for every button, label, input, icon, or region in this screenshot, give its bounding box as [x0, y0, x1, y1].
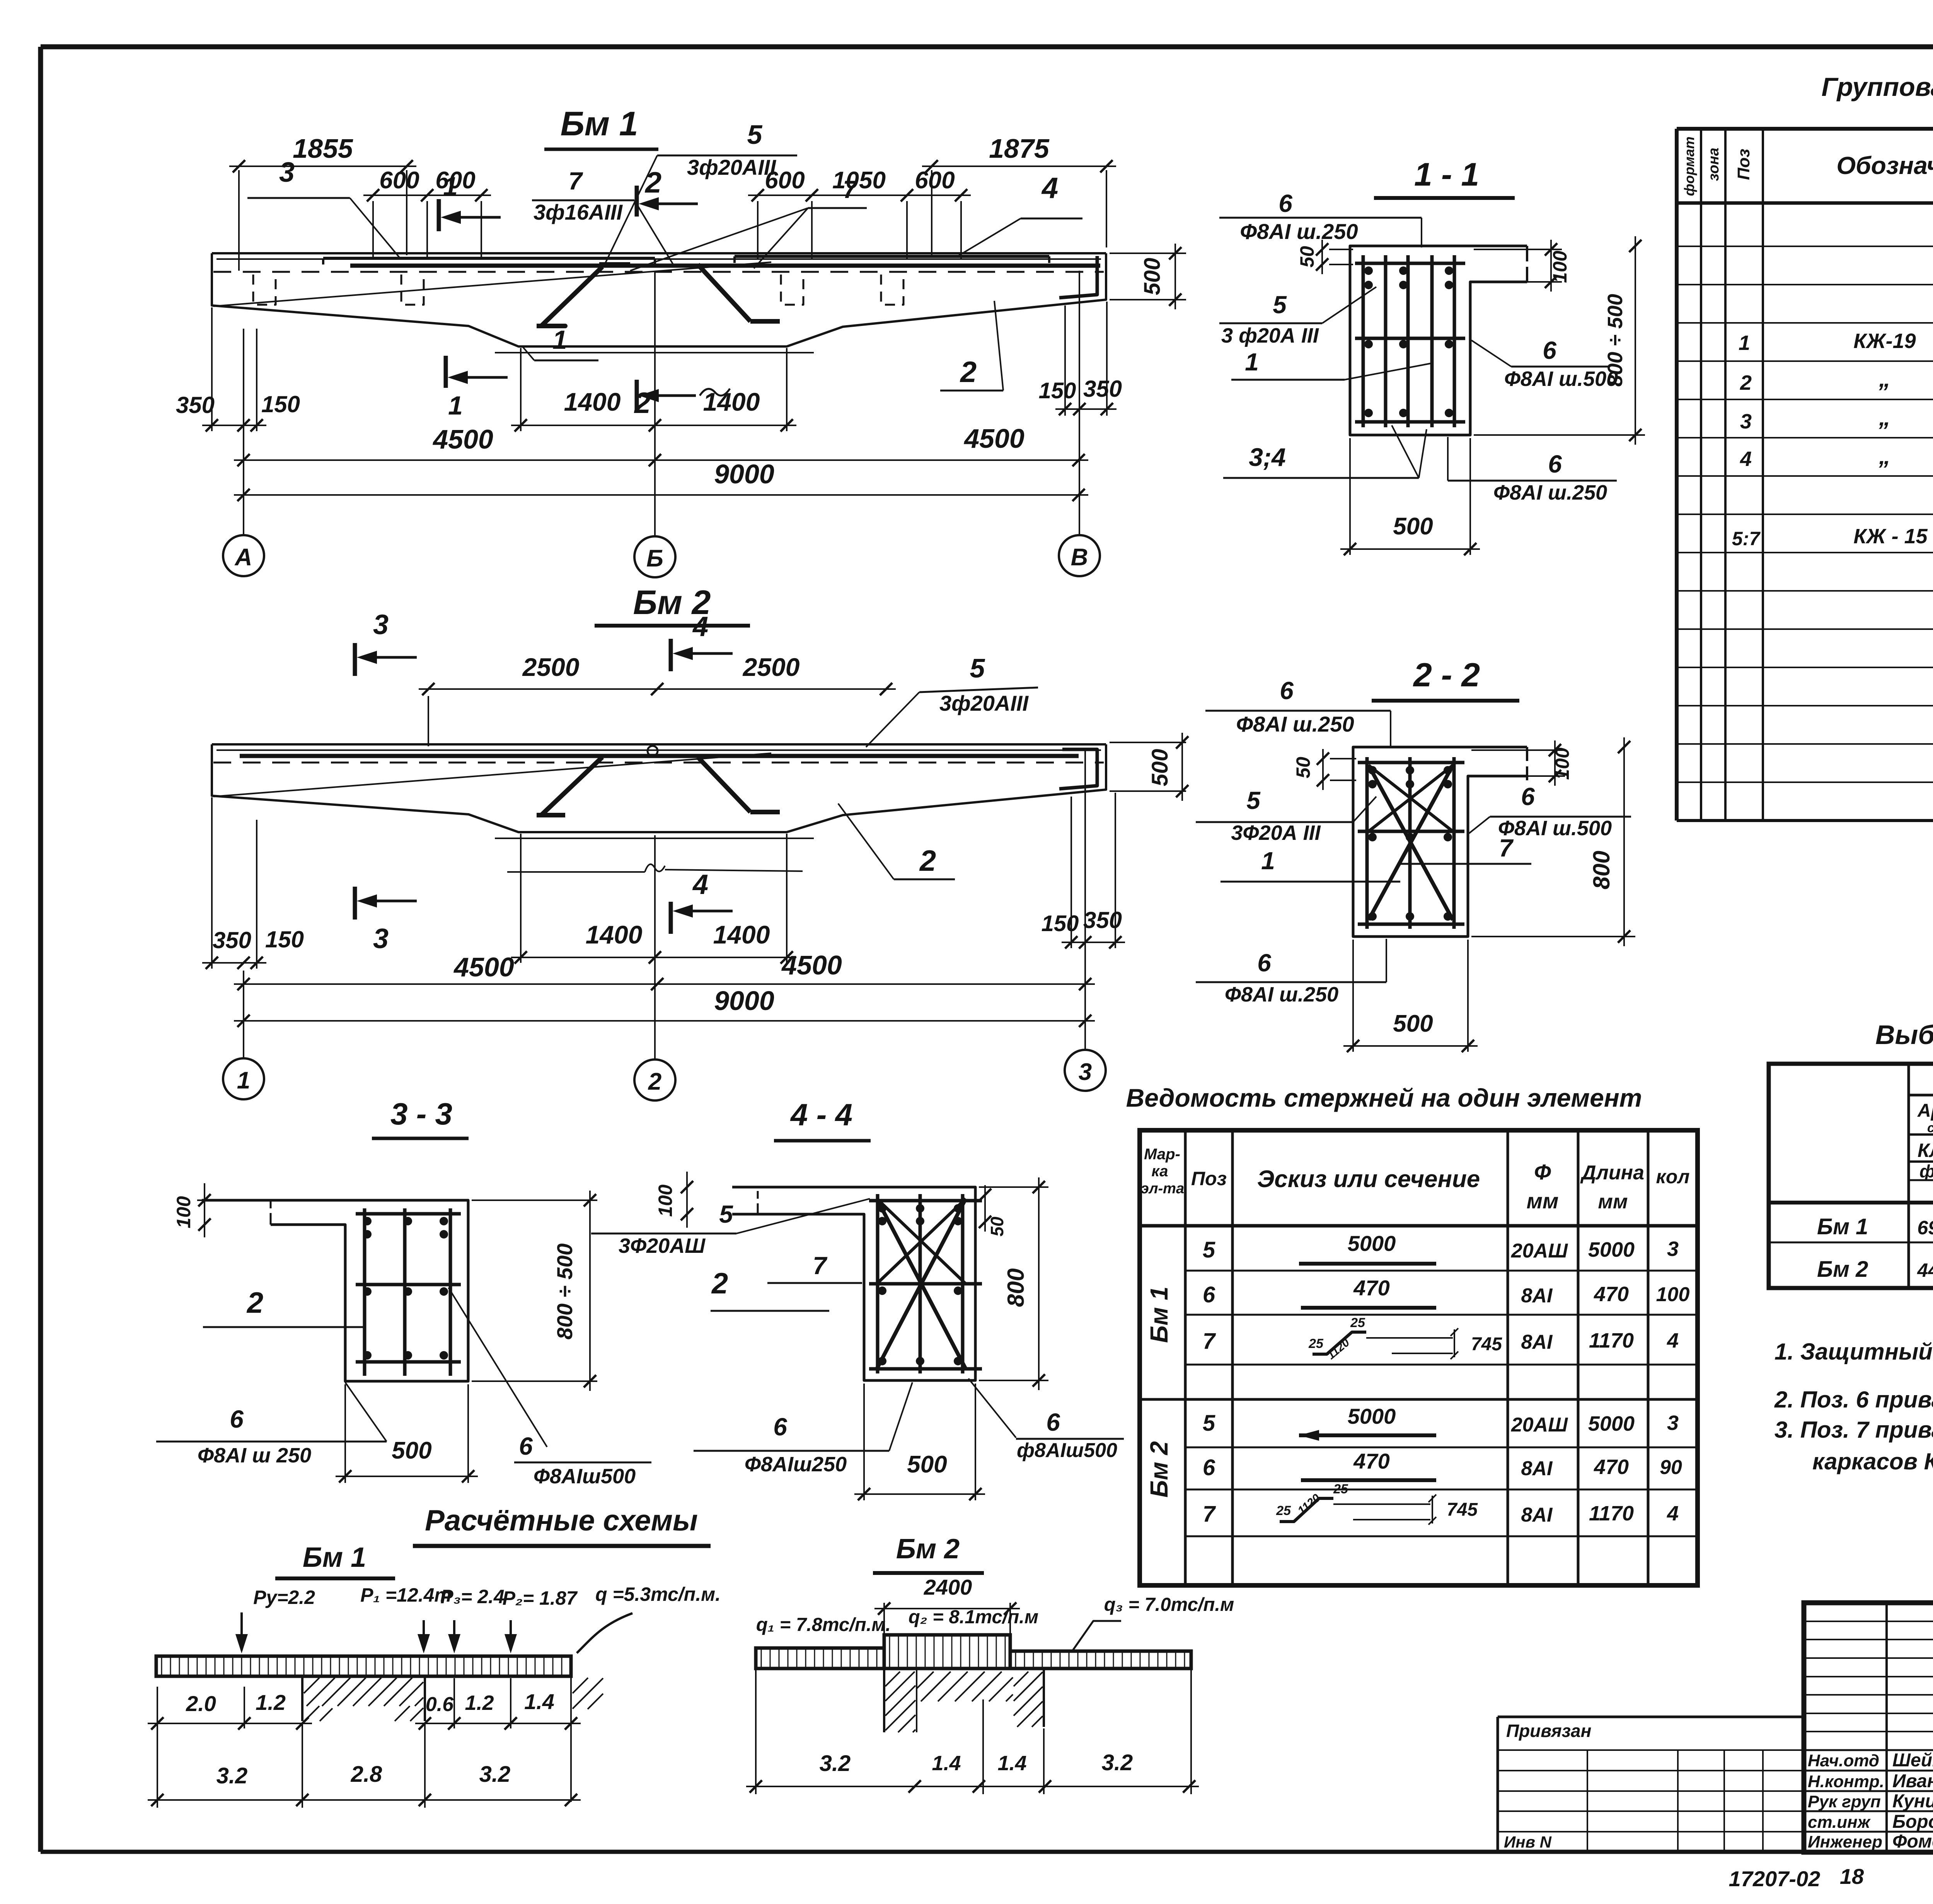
- svg-text:кол: кол: [1656, 1166, 1690, 1187]
- beam Бм2 break line: [507, 871, 645, 873]
- svg-text:3;4: 3;4: [1249, 443, 1285, 471]
- scheme Бм2 dim chain: [755, 1670, 757, 1794]
- svg-text:2 - 2: 2 - 2: [1413, 657, 1480, 694]
- svg-text:470: 470: [1594, 1283, 1629, 1306]
- svg-text:50: 50: [1296, 246, 1318, 268]
- svg-text:Длина: Длина: [1580, 1162, 1644, 1184]
- svg-text:„: „: [1878, 366, 1890, 392]
- svg-text:1875: 1875: [989, 133, 1050, 164]
- svg-text:В: В: [1071, 544, 1088, 571]
- dimension 600 1050 600 Бм1 right: [757, 201, 759, 260]
- svg-text:1: 1: [448, 391, 463, 420]
- svg-text:1 - 1: 1 - 1: [1414, 156, 1479, 193]
- svg-text:Ф: Ф: [1534, 1160, 1551, 1184]
- section 4-4 label 6 ш500 right: [968, 1379, 1016, 1438]
- svg-text:2: 2: [919, 845, 936, 877]
- bar schedule table outer border: [1140, 1130, 1698, 1585]
- section mark 2 lower with break squiggle: [635, 380, 639, 411]
- svg-text:350: 350: [1083, 907, 1122, 933]
- svg-text:3: 3: [1667, 1411, 1679, 1435]
- axis bubble 3: [1065, 1050, 1106, 1091]
- svg-text:3Ф20АШ: 3Ф20АШ: [619, 1234, 706, 1257]
- svg-text:5000: 5000: [1588, 1412, 1635, 1435]
- beam Бм1 rebar poz3 left lap: [323, 257, 655, 260]
- svg-text:350: 350: [1083, 376, 1122, 402]
- svg-text:3ф20АIII: 3ф20АIII: [687, 155, 777, 179]
- svg-text:50: 50: [1292, 757, 1314, 778]
- svg-text:800: 800: [1003, 1268, 1029, 1307]
- dimension 2500 2500 Бм2: [428, 696, 429, 746]
- svg-text:4500: 4500: [781, 950, 842, 980]
- svg-text:25: 25: [1350, 1315, 1365, 1330]
- svg-text:500: 500: [392, 1437, 431, 1464]
- svg-text:3: 3: [1667, 1237, 1679, 1261]
- scheme Бм2 middle support band hatch: [917, 1672, 934, 1689]
- section 4-4 cross diagonals: [877, 1199, 966, 1369]
- svg-text:18: 18: [1840, 1864, 1864, 1889]
- svg-text:ф8АIш500: ф8АIш500: [1017, 1439, 1117, 1462]
- svg-text:Обозначение: Обозначение: [1836, 152, 1933, 179]
- svg-text:350: 350: [176, 392, 215, 418]
- svg-text:150: 150: [261, 391, 300, 417]
- axis line Б: [654, 271, 656, 536]
- svg-text:А: А: [234, 544, 252, 571]
- section 4-4 stirrups: [869, 1199, 982, 1203]
- dimension 4500 4500 Бм2: [234, 983, 1095, 985]
- bar schedule column lines: [1184, 1130, 1187, 1585]
- svg-text:Эскиз или сечение: Эскиз или сечение: [1257, 1166, 1480, 1193]
- section 4-4 concrete outline: [732, 1187, 975, 1380]
- svg-text:Инв N: Инв N: [1504, 1833, 1552, 1851]
- section 3-3 rebar dots: [363, 1217, 372, 1225]
- svg-text:4: 4: [692, 611, 708, 642]
- scheme Бм2 left support wall: [883, 1670, 885, 1732]
- dimension 350 150 Бм2 left: [211, 797, 213, 969]
- svg-text:1.2: 1.2: [256, 1690, 286, 1715]
- section mark 3 lower: [353, 887, 357, 920]
- svg-text:500: 500: [1393, 1010, 1433, 1037]
- svg-text:Ф8АI ш.250: Ф8АI ш.250: [1236, 712, 1354, 736]
- svg-text:3Ф20А III: 3Ф20А III: [1231, 821, 1321, 845]
- svg-text:17207-02: 17207-02: [1729, 1866, 1820, 1891]
- svg-text:Бм 1: Бм 1: [303, 1542, 366, 1573]
- svg-text:3: 3: [373, 609, 389, 640]
- svg-text:5: 5: [970, 653, 985, 683]
- spec table header bottom: [1677, 201, 1933, 205]
- svg-text:q₃ = 7.0тс/п.м: q₃ = 7.0тс/п.м: [1104, 1594, 1234, 1615]
- svg-text:1170: 1170: [1589, 1502, 1634, 1525]
- dimension 1400 1400 Бм1: [520, 348, 522, 431]
- svg-text:745: 745: [1447, 1500, 1478, 1520]
- svg-text:3: 3: [279, 157, 295, 188]
- svg-text:100: 100: [1656, 1283, 1690, 1306]
- svg-text:4 - 4: 4 - 4: [790, 1097, 852, 1132]
- svg-text:2: 2: [648, 1068, 661, 1095]
- section 1-1 dim 500 bottom: [1349, 438, 1351, 555]
- svg-text:q =5.3тс/п.м.: q =5.3тс/п.м.: [595, 1583, 721, 1605]
- svg-text:470: 470: [1353, 1449, 1389, 1473]
- svg-text:20АШ: 20АШ: [1511, 1240, 1568, 1262]
- scheme Бм1 middle support wall: [301, 1676, 303, 1721]
- beam Бм1 bent-up bar poz7 right: [698, 264, 750, 321]
- svg-text:100: 100: [655, 1184, 676, 1217]
- svg-text:150: 150: [265, 926, 304, 952]
- scheme Бм1 dim chain upper: [157, 1687, 158, 1728]
- svg-text:Бм 1: Бм 1: [1817, 1214, 1868, 1239]
- svg-text:5000: 5000: [1588, 1238, 1635, 1261]
- svg-text:4: 4: [1740, 447, 1752, 471]
- svg-text:Поз: Поз: [1734, 149, 1753, 180]
- svg-text:Ф8АI ш.500: Ф8АI ш.500: [1504, 367, 1618, 391]
- scheme Бм1 beam strip: [156, 1656, 571, 1676]
- svg-text:50: 50: [987, 1216, 1007, 1237]
- beam Бм2 top rebar poz5: [240, 754, 1079, 758]
- svg-text:Фоменко: Фоменко: [1892, 1831, 1933, 1852]
- svg-text:каркасов КР 8, КР 9 высота: каркасов КР 8, КР 9 высота шва hш = 4 мм…: [1812, 1448, 1933, 1474]
- section 4-4 rebar dots: [878, 1204, 886, 1213]
- scheme Бм2 beam strips: [756, 1648, 884, 1669]
- svg-text:5:7: 5:7: [1732, 528, 1761, 549]
- svg-text:3 - 3: 3 - 3: [390, 1097, 452, 1131]
- steel table outer border: [1769, 1064, 1933, 1288]
- svg-text:2400: 2400: [924, 1575, 972, 1599]
- section 2-2 stirrups: [1358, 761, 1464, 764]
- dimension 4500 4500 Бм1: [234, 459, 1088, 461]
- beam Бм2 dashed reinforcement axis: [213, 762, 1104, 764]
- dimension 1855 Бм1: [238, 170, 240, 271]
- svg-text:3: 3: [1079, 1059, 1092, 1085]
- svg-text:1: 1: [1739, 331, 1750, 355]
- svg-text:8АI: 8АI: [1521, 1331, 1553, 1353]
- svg-text:Ф8АI ш 250: Ф8АI ш 250: [198, 1444, 311, 1467]
- svg-text:0.6: 0.6: [426, 1693, 454, 1716]
- svg-text:1: 1: [1245, 348, 1259, 376]
- svg-text:4: 4: [1041, 172, 1058, 205]
- svg-text:500: 500: [1140, 258, 1165, 295]
- steel table mark column: [1907, 1064, 1910, 1288]
- svg-text:6: 6: [1257, 949, 1271, 977]
- bar schedule header bottom line: [1140, 1224, 1698, 1228]
- svg-text:5: 5: [747, 119, 763, 150]
- svg-text:5: 5: [1273, 291, 1287, 319]
- svg-text:8АI: 8АI: [1521, 1504, 1553, 1526]
- svg-text:7: 7: [1203, 1501, 1216, 1527]
- svg-text:1400: 1400: [564, 387, 621, 416]
- svg-text:Py=2.2: Py=2.2: [253, 1587, 315, 1608]
- svg-text:25: 25: [1308, 1336, 1324, 1351]
- svg-text:Нач.отд: Нач.отд: [1808, 1751, 1879, 1770]
- svg-text:Иванов: Иванов: [1892, 1771, 1933, 1791]
- svg-text:5: 5: [1203, 1411, 1215, 1436]
- svg-text:Класс А I: Класс А I: [1918, 1140, 1933, 1161]
- spec table vertical lines: [1700, 129, 1702, 821]
- axis line 3: [1084, 748, 1086, 1050]
- svg-text:5: 5: [719, 1200, 733, 1228]
- svg-text:470: 470: [1594, 1455, 1629, 1479]
- section 2-2 dim 100 flange: [1471, 749, 1565, 751]
- dimension 9000 Бм1: [234, 494, 1088, 496]
- svg-text:Б: Б: [646, 545, 663, 572]
- svg-text:4500: 4500: [453, 952, 514, 982]
- svg-text:Бм 1: Бм 1: [1145, 1286, 1173, 1343]
- svg-text:6: 6: [230, 1405, 244, 1433]
- svg-text:1400: 1400: [703, 387, 760, 416]
- svg-text:q₂ = 8.1тс/п.м: q₂ = 8.1тс/п.м: [909, 1607, 1038, 1628]
- title block left grid rows: [1804, 1621, 1933, 1622]
- svg-text:2: 2: [960, 356, 977, 389]
- beam Бм1 top rebar poz5: [350, 264, 1100, 268]
- svg-text:мм: мм: [1598, 1191, 1628, 1213]
- svg-text:P₁ =12.4т: P₁ =12.4т: [360, 1584, 452, 1606]
- svg-text:КЖ - 15: КЖ - 15: [1853, 525, 1928, 548]
- svg-text:Н.контр.: Н.контр.: [1808, 1772, 1884, 1791]
- svg-text:600: 600: [915, 167, 955, 194]
- svg-text:4: 4: [1667, 1329, 1679, 1352]
- svg-text:6: 6: [1548, 450, 1562, 478]
- axis line 2: [654, 835, 656, 1059]
- svg-text:мм: мм: [1527, 1189, 1559, 1213]
- section mark 1 upper: [437, 199, 441, 231]
- svg-text:5000: 5000: [1348, 1231, 1396, 1256]
- svg-text:500: 500: [1393, 513, 1433, 540]
- svg-text:4500: 4500: [963, 423, 1024, 454]
- title block outer border: [1804, 1603, 1933, 1852]
- svg-text:600: 600: [379, 167, 419, 194]
- axis bubble 1: [223, 1058, 264, 1099]
- section 3-3 stirrups: [356, 1212, 461, 1216]
- scheme Бм1 right support hatch: [573, 1678, 588, 1693]
- section 3-3 dim 100 flange: [204, 1191, 205, 1234]
- axis bubble А: [223, 535, 264, 576]
- binding table outline: [1497, 1717, 1499, 1852]
- svg-text:Бм 2: Бм 2: [1817, 1257, 1868, 1282]
- svg-text:6: 6: [1521, 783, 1535, 810]
- section 4-4 dim 500 bottom: [863, 1384, 865, 1500]
- svg-text:20АШ: 20АШ: [1511, 1414, 1568, 1436]
- svg-text:3. Поз. 7 приварить в перес: 3. Поз. 7 приварить в пересечении к прод…: [1774, 1417, 1933, 1443]
- svg-text:Арматурная: Арматурная: [1917, 1100, 1933, 1121]
- scheme Бм2 right support wall: [1043, 1670, 1045, 1727]
- drawing frame border: [41, 44, 1933, 49]
- svg-text:6: 6: [1203, 1282, 1215, 1307]
- section 1-1 stirrups: [1355, 262, 1465, 265]
- svg-text:КЖ-19: КЖ-19: [1853, 329, 1916, 353]
- svg-text:Боровик: Боровик: [1892, 1812, 1933, 1832]
- svg-text:6: 6: [1280, 677, 1294, 705]
- svg-text:69.1: 69.1: [1917, 1217, 1933, 1239]
- svg-text:8АI: 8АI: [1521, 1285, 1553, 1307]
- axis line А: [243, 329, 244, 535]
- svg-text:Рук груп: Рук груп: [1808, 1792, 1881, 1811]
- bar schedule row lines: [1185, 1270, 1698, 1272]
- svg-text:25: 25: [1276, 1503, 1291, 1518]
- svg-text:Ф8АIш250: Ф8АIш250: [745, 1453, 847, 1476]
- svg-text:1.2: 1.2: [465, 1691, 494, 1715]
- dimension 500 Бм2 right end: [1110, 742, 1186, 743]
- axis bubble В: [1059, 535, 1100, 576]
- steel table header bottom thick: [1769, 1201, 1933, 1205]
- svg-text:Расчётные схемы: Расчётные схемы: [425, 1504, 698, 1537]
- svg-text:5: 5: [1203, 1237, 1215, 1263]
- svg-text:ка: ка: [1151, 1163, 1168, 1180]
- svg-text:4: 4: [692, 869, 708, 900]
- axis line 1: [243, 971, 244, 1058]
- section 4-4 dim 100 flange: [686, 1177, 688, 1224]
- section 3-3 concrete outline: [202, 1200, 468, 1381]
- svg-text:470: 470: [1353, 1276, 1389, 1300]
- svg-text:6: 6: [1203, 1455, 1215, 1480]
- svg-text:1050: 1050: [832, 167, 886, 194]
- beam Бм1 formwork line under haunch: [495, 352, 814, 353]
- section 3-3 dim 800-500: [472, 1199, 597, 1201]
- svg-text:3.2: 3.2: [216, 1763, 248, 1788]
- beam Бм2 far-side haunch edge: [213, 753, 771, 797]
- svg-text:3 ф20А III: 3 ф20А III: [1221, 324, 1319, 347]
- svg-text:1.4: 1.4: [997, 1752, 1026, 1775]
- svg-text:90: 90: [1660, 1456, 1682, 1479]
- steel table row split: [1769, 1242, 1933, 1244]
- svg-text:2: 2: [711, 1267, 728, 1300]
- svg-text:2: 2: [1740, 371, 1752, 394]
- scheme Бм2 q3 leader: [1072, 1621, 1121, 1652]
- svg-text:Ф8АIш500: Ф8АIш500: [534, 1465, 636, 1488]
- axis bubble Б: [634, 536, 675, 577]
- svg-text:3: 3: [1740, 410, 1752, 433]
- scheme Бм1 q leader curve: [577, 1613, 632, 1653]
- svg-text:Бм 2: Бм 2: [896, 1534, 960, 1564]
- svg-text:800: 800: [1589, 851, 1614, 889]
- svg-text:7: 7: [813, 1252, 828, 1280]
- svg-text:2500: 2500: [522, 653, 580, 681]
- binding table rows: [1498, 1749, 1804, 1751]
- section 1-1 dim 800-500: [1474, 434, 1645, 436]
- scheme Бм1 dim chain lower: [157, 1728, 158, 1808]
- beam Бм2 pedestal verticals: [520, 834, 522, 963]
- svg-text:6: 6: [1543, 336, 1556, 364]
- section mark 2 upper: [635, 186, 639, 217]
- svg-text:500: 500: [907, 1451, 947, 1478]
- svg-text:1400: 1400: [713, 920, 770, 949]
- svg-text:800 ÷ 500: 800 ÷ 500: [552, 1244, 577, 1340]
- svg-text:Выборка стали на один элемент,: Выборка стали на один элемент, кг: [1875, 1020, 1933, 1050]
- beam Бм1 stirrup dash marks: [253, 275, 276, 305]
- svg-text:1: 1: [1261, 847, 1275, 875]
- svg-text:4500: 4500: [432, 424, 493, 454]
- steel table fittings header row: [1909, 1094, 1933, 1097]
- scheme Бм1 load arrows: [240, 1612, 243, 1650]
- section 3-3 dim 500 bottom: [344, 1384, 346, 1483]
- svg-text:150: 150: [1042, 911, 1079, 936]
- svg-text:100: 100: [1551, 747, 1573, 780]
- svg-text:25: 25: [1333, 1482, 1348, 1496]
- beam Бм1 bent-up bar poz7 left: [537, 324, 565, 328]
- svg-text:6: 6: [773, 1413, 787, 1441]
- section 2-2 cross diagonals: [1369, 765, 1453, 920]
- svg-text:зона: зона: [1706, 148, 1722, 181]
- svg-text:ф мм: ф мм: [1919, 1161, 1933, 1181]
- svg-text:7: 7: [568, 167, 583, 195]
- svg-text:5000: 5000: [1348, 1404, 1396, 1428]
- svg-text:Привязан: Привязан: [1506, 1721, 1591, 1741]
- axis bubble 2: [634, 1059, 675, 1100]
- svg-text:150: 150: [1039, 378, 1076, 403]
- beam Бм2 crown circle: [648, 746, 658, 756]
- dimension 1875 Бм1: [931, 170, 932, 255]
- section 1-1 rebar dots: [1364, 266, 1373, 275]
- beam Бм1 far-side haunch edge: [213, 262, 771, 306]
- svg-text:4: 4: [1667, 1502, 1679, 1525]
- beam Бм2 right end inner corner: [1059, 749, 1097, 789]
- svg-text:3.2: 3.2: [479, 1762, 511, 1787]
- svg-text:формат: формат: [1681, 136, 1697, 196]
- section 3-3 vertical rebar: [363, 1208, 366, 1376]
- svg-text:9000: 9000: [714, 986, 774, 1016]
- section 4-4 vertical rebar: [876, 1194, 880, 1373]
- svg-text:2. Поз. 6 приварить в пересе: 2. Поз. 6 приварить в пересечении с плос…: [1774, 1387, 1933, 1413]
- svg-text:1: 1: [443, 172, 458, 201]
- svg-text:сталь гост 5781-75: сталь гост 5781-75: [1927, 1121, 1933, 1135]
- svg-text:44.0: 44.0: [1917, 1259, 1933, 1281]
- svg-text:Инженер: Инженер: [1808, 1832, 1882, 1851]
- section 2-2 rebar dots: [1368, 766, 1377, 775]
- svg-text:1.4: 1.4: [932, 1752, 961, 1775]
- svg-text:Групповая спецификация для мон: Групповая спецификация для монолитных эл…: [1821, 72, 1933, 102]
- svg-text:Бм 2: Бм 2: [1145, 1441, 1173, 1498]
- svg-text:100: 100: [1549, 251, 1571, 283]
- svg-text:800 ÷ 500: 800 ÷ 500: [1604, 294, 1627, 387]
- svg-text:3ф20АIII: 3ф20АIII: [939, 691, 1029, 715]
- beam Бм2 formwork line under haunch: [495, 838, 814, 839]
- dimension 150 350 Бм2 right: [1070, 797, 1072, 948]
- svg-text:2: 2: [634, 387, 651, 420]
- svg-text:1400: 1400: [586, 920, 643, 949]
- beam Бм2 bent-up bar poz7 right: [698, 757, 750, 812]
- svg-text:1.4: 1.4: [524, 1689, 554, 1714]
- dimension 350 150 Бм1 left: [211, 307, 213, 431]
- dimension 150 350 Бм1 right: [1064, 305, 1066, 416]
- svg-text:3: 3: [373, 923, 389, 954]
- section mark 1 lower: [444, 356, 448, 388]
- beam Бм2 outline: [212, 743, 1106, 746]
- svg-text:6: 6: [1278, 189, 1292, 217]
- section 3-3 label 6 ш500 leader: [448, 1288, 547, 1447]
- svg-text:3.2: 3.2: [820, 1751, 851, 1776]
- svg-text:1. Защитный слой бетона для ра: 1. Защитный слой бетона для рабочей арма…: [1774, 1339, 1933, 1365]
- svg-text:Мар-: Мар-: [1144, 1146, 1180, 1163]
- svg-text:2.0: 2.0: [186, 1691, 216, 1716]
- svg-text:1855: 1855: [293, 133, 353, 164]
- svg-text:1: 1: [237, 1067, 250, 1094]
- svg-text:9000: 9000: [714, 459, 774, 489]
- beam Бм1 right end inner corner: [1059, 256, 1097, 298]
- svg-text:8АI: 8АI: [1521, 1457, 1553, 1480]
- svg-text:„: „: [1878, 443, 1890, 469]
- section 4-4 dim 50: [984, 1185, 986, 1232]
- svg-text:Шейко: Шейко: [1892, 1750, 1933, 1771]
- svg-text:Поз: Поз: [1191, 1168, 1227, 1189]
- svg-text:3ф16АIII: 3ф16АIII: [534, 200, 623, 224]
- spec table outer border: [1677, 127, 1933, 131]
- section 1-1 dim 100 flange: [1474, 249, 1562, 250]
- binding table columns: [1587, 1750, 1588, 1852]
- beam Бм1 outline: [212, 252, 1106, 254]
- section 2-2 dim 800: [1471, 936, 1635, 937]
- svg-text:3.2: 3.2: [1102, 1750, 1133, 1775]
- svg-text:6: 6: [519, 1432, 533, 1460]
- svg-text:1170: 1170: [1589, 1329, 1634, 1352]
- section 2-2 concrete outline: [1353, 747, 1527, 937]
- svg-text:100: 100: [173, 1196, 194, 1228]
